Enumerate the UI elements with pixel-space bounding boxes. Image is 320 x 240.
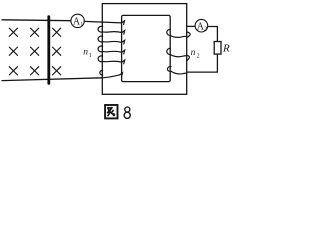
wire: EMF source top lead to ammeter A1 [2, 19, 71, 22]
primary coil n1 turn 4 [98, 56, 125, 64]
secondary coil n2 turn 3 [167, 67, 186, 74]
wire: A2 to resistor R [208, 27, 218, 42]
svg-text:1: 1 [89, 53, 92, 59]
conducting rod in field (EMF source) [47, 17, 50, 84]
caption numeral 8 [124, 107, 130, 118]
magnetic field x row 3 [9, 67, 60, 75]
transformer outer box [102, 4, 186, 95]
caption character "tu" (figure), drawn as strokes [105, 105, 117, 118]
wire: secondary top terminal to ammeter A2 [187, 25, 196, 27]
magnetic field x row 1 [9, 28, 60, 36]
wire: resistor R to secondary bottom terminal [187, 54, 218, 72]
wire: A1 to primary coil n1 top terminal [84, 21, 121, 23]
secondary coil n2 turn 1 [167, 29, 190, 37]
magnetic field x row 2 [9, 47, 60, 55]
svg-text:2: 2 [204, 27, 207, 33]
ammeter A2 [195, 19, 208, 32]
primary coil n1 turn 2 [98, 36, 125, 44]
svg-text:1: 1 [80, 22, 83, 28]
secondary coil n2 turn 2 [167, 48, 190, 60]
primary coil n1 top turn hook at core [122, 21, 125, 25]
label n2 [191, 48, 200, 60]
ammeter A1 [71, 14, 84, 27]
resistor R [214, 42, 221, 55]
svg-text:n: n [83, 48, 88, 58]
label A2 [197, 21, 207, 32]
svg-text:R: R [222, 43, 230, 55]
svg-text:n: n [191, 48, 196, 58]
primary coil n1 turn 1 [98, 26, 125, 34]
primary coil n1 turn 3 [98, 46, 125, 54]
label n1 [83, 48, 92, 59]
svg-text:2: 2 [197, 54, 200, 60]
wire: EMF source bottom lead to transformer box [2, 78, 102, 81]
primary coil n1 bottom turn [102, 73, 122, 78]
transformer core [122, 15, 171, 81]
label A1 [73, 17, 83, 28]
primary coil n1 turn 5 [100, 70, 103, 75]
